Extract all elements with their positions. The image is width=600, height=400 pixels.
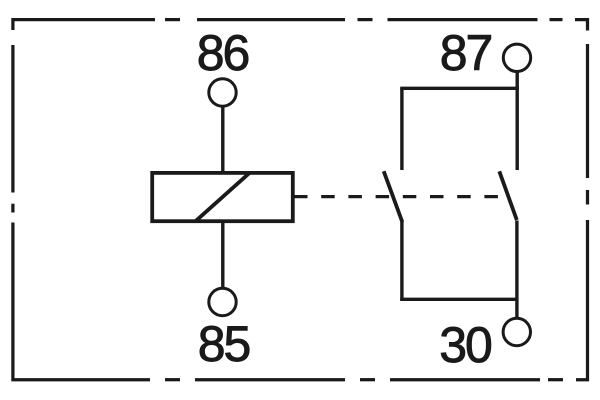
contact blade right [499, 171, 517, 220]
wire right lower to 30 [515, 221, 518, 319]
svg-text:30: 30 [439, 317, 491, 373]
wire top horizontal [400, 87, 519, 90]
terminal 87 [503, 44, 530, 71]
terminal 86 [209, 79, 236, 106]
wire left branch down [400, 88, 403, 170]
contact blade left [384, 171, 403, 222]
wire bottom horizontal [400, 298, 517, 301]
svg-text:87: 87 [440, 25, 492, 81]
wire 87 down [516, 72, 519, 170]
mechanical link (dashed) [294, 195, 498, 198]
terminal 85 [209, 288, 236, 315]
wire left lower [400, 221, 403, 301]
relay coil K1 [152, 173, 293, 221]
wire 86 to coil [221, 107, 224, 173]
svg-text:85: 85 [198, 316, 250, 372]
terminal 30 [503, 318, 530, 345]
wire coil to 85 [221, 221, 224, 287]
svg-text:86: 86 [197, 25, 249, 81]
